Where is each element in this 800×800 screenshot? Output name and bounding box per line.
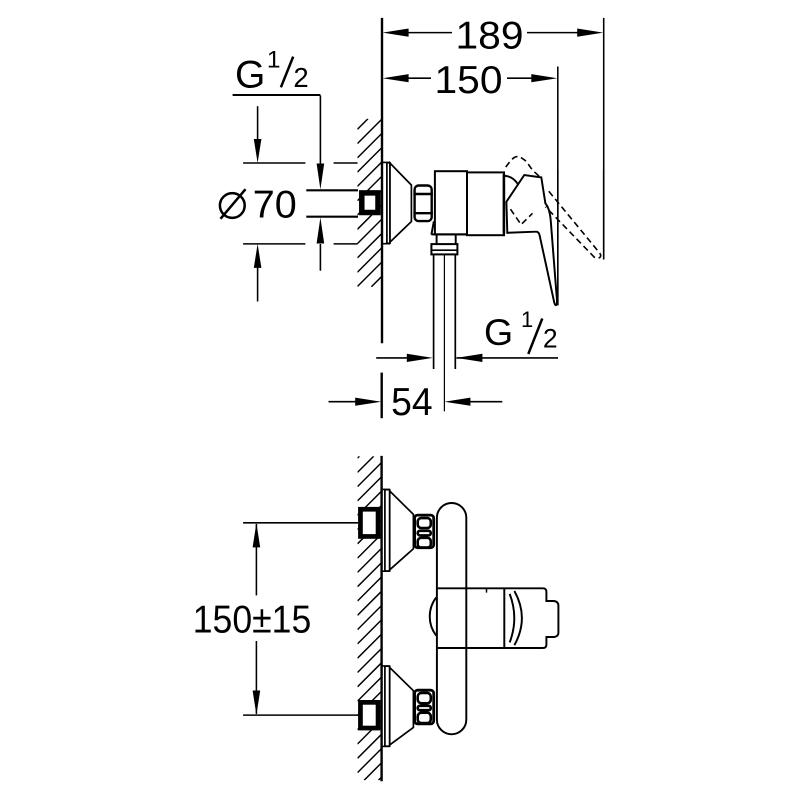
svg-text:2: 2 [543,323,558,353]
svg-text:54: 54 [391,381,433,424]
svg-text:150: 150 [435,59,503,102]
svg-text:70: 70 [253,184,297,227]
svg-text:G: G [484,311,513,353]
svg-text:189: 189 [456,15,524,58]
svg-text:1: 1 [267,46,281,73]
svg-text:G: G [235,53,265,96]
svg-text:2: 2 [293,62,308,93]
svg-text:1: 1 [521,307,533,332]
svg-text:150±15: 150±15 [193,599,312,642]
